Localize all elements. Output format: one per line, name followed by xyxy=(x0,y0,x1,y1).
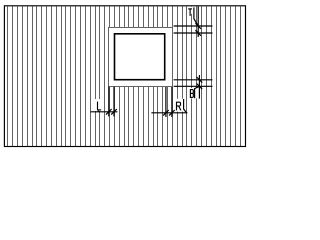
T tick lower xyxy=(195,30,201,36)
R extension line (reveal right) xyxy=(171,87,173,117)
label R xyxy=(177,102,181,111)
T extension line (reveal top) xyxy=(174,25,213,27)
reveal / niche rectangle (white area around opening) xyxy=(109,28,173,87)
B tick lower xyxy=(197,84,203,90)
T leader xyxy=(194,7,198,25)
label background box L xyxy=(95,99,103,111)
L extension line (reveal left) xyxy=(108,87,110,117)
T extension line (opening top) xyxy=(174,32,213,34)
R leader xyxy=(184,99,187,113)
B leader xyxy=(195,87,199,99)
dimension R xyxy=(151,87,187,117)
dimension T xyxy=(174,6,213,37)
label T xyxy=(188,9,192,16)
opening rectangle (window) xyxy=(115,34,165,80)
dimension L xyxy=(91,87,118,117)
R tick left xyxy=(163,110,169,116)
T dimension line xyxy=(197,6,199,37)
L tick left xyxy=(106,109,112,115)
B extension line (opening bottom) xyxy=(174,79,213,81)
dimension B xyxy=(174,75,213,99)
label background box B xyxy=(189,88,199,98)
label L xyxy=(98,102,102,110)
B tick upper xyxy=(197,77,203,83)
wall hatch (vertical section lines) xyxy=(7,7,241,147)
label background box T xyxy=(191,7,193,14)
L dimension line xyxy=(91,111,118,113)
L leader xyxy=(97,110,99,112)
R tick right xyxy=(169,110,175,116)
L tick right xyxy=(111,109,117,115)
T tick upper xyxy=(195,23,201,29)
R dimension line xyxy=(151,112,187,114)
R extension line (opening right) xyxy=(165,87,167,117)
label B xyxy=(190,89,193,98)
label background box R xyxy=(175,99,184,112)
B extension line (reveal bottom) xyxy=(174,85,213,87)
L extension line (opening left) xyxy=(113,87,115,117)
B dimension line xyxy=(198,75,200,99)
wall border frame xyxy=(4,6,245,147)
